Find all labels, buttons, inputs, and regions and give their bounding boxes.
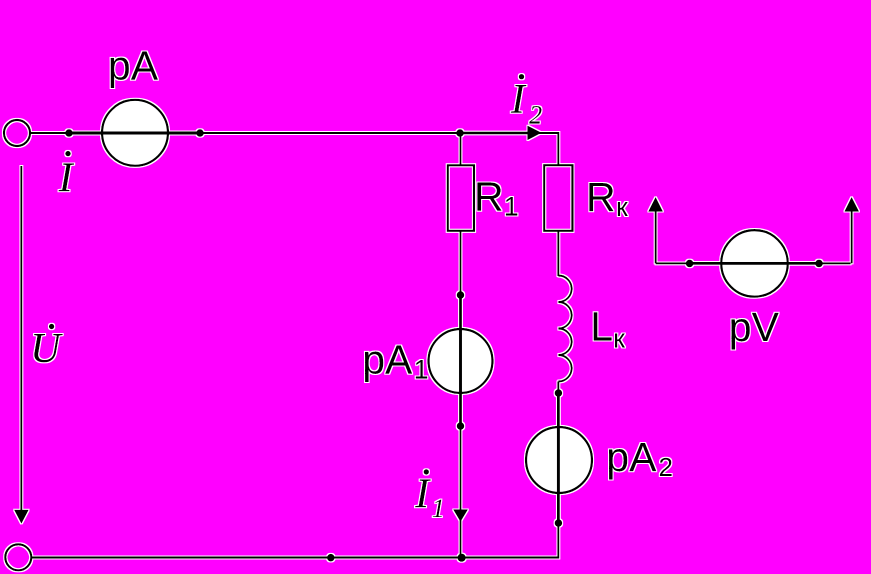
svg-text:pA: pA (108, 43, 159, 89)
svg-text:L: L (590, 303, 613, 349)
svg-text:2: 2 (529, 100, 542, 129)
svg-text:pA: pA (606, 434, 657, 480)
svg-text:R: R (586, 174, 616, 220)
svg-text:U: U (30, 326, 63, 372)
svg-text:1: 1 (414, 355, 429, 385)
svg-text:1: 1 (504, 192, 519, 222)
svg-text:pV: pV (729, 304, 780, 350)
svg-text:1: 1 (432, 494, 445, 523)
svg-text:к: к (613, 324, 625, 354)
svg-text:pA: pA (362, 337, 413, 383)
svg-text:к: к (616, 192, 628, 222)
svg-text:I: I (414, 472, 431, 518)
svg-text:I: I (58, 155, 75, 201)
svg-text:I: I (510, 77, 527, 123)
svg-text:R: R (474, 174, 504, 220)
svg-text:2: 2 (659, 452, 673, 482)
